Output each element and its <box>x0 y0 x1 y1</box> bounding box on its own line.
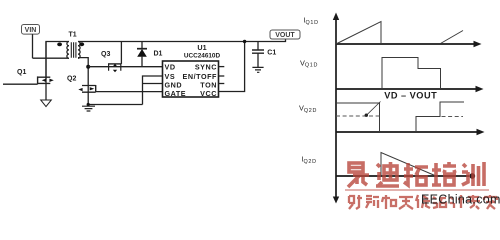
pin EN/TOFF stub <box>219 75 225 77</box>
svg-text:D1: D1 <box>154 51 163 58</box>
waveform VQ2D right steps <box>416 102 464 132</box>
callout line VD-VOUT <box>367 102 381 115</box>
svg-text:EEChina.com: EEChina.com <box>421 193 500 207</box>
watermark char 3 (tuo) <box>404 163 428 185</box>
svg-text:VD – VOUT: VD – VOUT <box>384 91 437 101</box>
pin TON stub <box>219 83 225 85</box>
waveform vertical axis <box>335 16 337 199</box>
wire primary top lead to Q1 drain <box>46 42 69 80</box>
watermark small char 2 (pin) <box>366 196 379 208</box>
svg-text:Q1: Q1 <box>17 69 26 76</box>
svg-text:VD: VD <box>165 63 176 72</box>
watermark small char 6 (she2) <box>433 197 446 208</box>
ground (Q1 source, triangle style) <box>41 100 52 107</box>
watermark small char 4 (tian) <box>399 197 413 209</box>
watermark small char 9 (jia) <box>484 195 497 209</box>
ground (Q2 source, earth style) <box>82 106 95 111</box>
transformer T1 secondary winding <box>78 42 80 59</box>
waveform IQ1D ramp 2 <box>441 31 464 44</box>
wire Q2 drain node to Q3 and U1 VD pin <box>88 66 162 68</box>
waveform IQ2D triangle <box>381 153 436 177</box>
transistor Q2 <box>95 85 97 92</box>
watermark underline <box>345 189 489 191</box>
svg-text:IQ2D: IQ2D <box>302 155 317 165</box>
wire Q3 gate up to VOUT rail <box>120 42 122 64</box>
svg-text:VCC: VCC <box>200 89 217 98</box>
svg-text:Q3: Q3 <box>101 51 110 58</box>
svg-text:VOUT: VOUT <box>275 32 295 39</box>
node junction dot Q2 source/ground <box>87 103 90 106</box>
watermark char 4 (pei) <box>432 162 456 185</box>
svg-text:Q2: Q2 <box>67 76 76 83</box>
watermark small char 1 (she) <box>349 195 362 209</box>
watermark char 5 (xun) <box>462 162 484 186</box>
svg-text:T1: T1 <box>69 32 77 39</box>
svg-text:VQ2D: VQ2D <box>299 104 317 114</box>
wire primary bottom lead <box>33 57 70 59</box>
wire secondary bottom lead <box>78 58 88 84</box>
axis IQ1D <box>336 43 474 45</box>
svg-text:UCC24610D: UCC24610D <box>184 52 221 59</box>
node junction dot at Q2 drain / Q3 branch <box>86 65 90 69</box>
pin SYNC stub <box>219 66 225 68</box>
svg-text:IQ1D: IQ1D <box>304 16 319 26</box>
wire VCC pin to VOUT rail <box>219 42 245 92</box>
wire ground rail up to VS pin <box>143 76 163 105</box>
transformer T1 primary winding <box>67 42 69 59</box>
polarity dot primary <box>57 43 62 47</box>
ground (C1, earth style) <box>252 67 263 72</box>
svg-text:SYNC: SYNC <box>195 63 217 72</box>
node junction dot VCC/rail <box>243 40 246 43</box>
svg-text:U1: U1 <box>197 43 206 52</box>
svg-text:VQ1D: VQ1D <box>300 58 318 68</box>
waveform IQ1D ramp 1 <box>336 22 381 45</box>
wire Q2 gate to U1 GATE pin <box>96 91 163 93</box>
wire ground rail from Q2 source <box>88 104 142 106</box>
waveform VQ2D right dashed level <box>442 116 464 118</box>
node VIN terminal box <box>22 25 40 35</box>
waveform VQ2D left high level <box>336 103 380 132</box>
transistor Q3 <box>108 63 121 65</box>
watermark char 1 (yi) <box>348 163 369 187</box>
waveform VQ2D left dashed level <box>336 115 380 117</box>
wire secondary top / VOUT rail <box>78 39 286 42</box>
svg-text:C1: C1 <box>267 50 276 57</box>
watermark small char 5 (xian) <box>416 195 430 208</box>
wire VIN down to primary bottom lead <box>32 34 34 58</box>
transformer T1 core <box>71 42 76 58</box>
capacitor C1 <box>257 42 259 51</box>
watermark small char 8 (zhuan) <box>467 195 480 209</box>
svg-text:VIN: VIN <box>25 27 37 34</box>
transistor Q1 <box>3 83 38 85</box>
watermark small char 7 (ji) <box>450 195 464 208</box>
axis VQ1D <box>336 88 476 90</box>
waveform VQ1D pulse <box>382 58 441 90</box>
watermark char 2 (di) <box>376 162 399 186</box>
op-amp U1 IC body UCC24610D <box>163 61 219 97</box>
polarity dot secondary <box>79 42 84 46</box>
axis VQ2D <box>336 131 477 133</box>
axis IQ2D <box>336 175 469 177</box>
node VOUT terminal box <box>270 30 300 39</box>
svg-text:GATE: GATE <box>165 89 187 98</box>
watermark small char 3 (he) <box>382 195 396 209</box>
diode D1 <box>141 42 143 49</box>
wire GND pin branch <box>143 83 163 85</box>
